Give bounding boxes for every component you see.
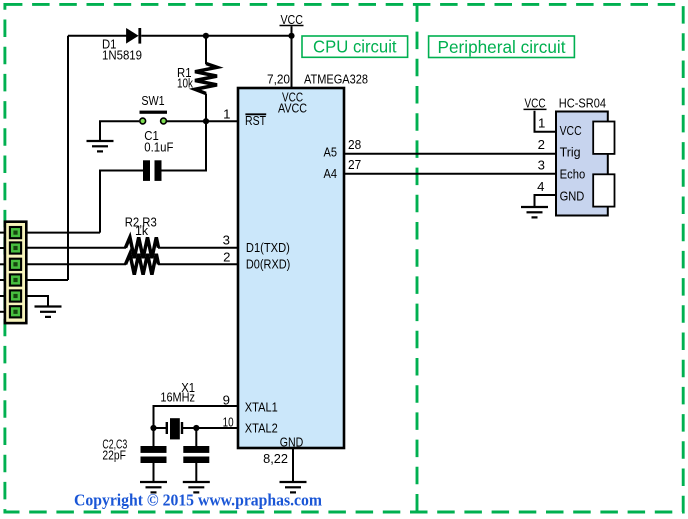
wire VCC stem [291, 26, 293, 88]
svg-text:A5: A5 [324, 145, 338, 160]
pin name RST (overline) [245, 113, 266, 128]
node junction RST/R1 [203, 118, 209, 124]
svg-text:27: 27 [348, 157, 361, 172]
wire left vertical [67, 36, 69, 280]
transducer lower [593, 174, 614, 206]
ground (SW1) [87, 141, 114, 151]
svg-text:4: 4 [537, 179, 544, 194]
wire XTAL1 [154, 406, 239, 446]
svg-text:22pF: 22pF [102, 448, 126, 463]
resistor R3 [126, 254, 159, 275]
svg-text:CPU circuit: CPU circuit [313, 37, 397, 57]
wire pin4 to ground [535, 195, 557, 207]
connector pin stubs left [0, 233, 5, 312]
wire pin5 to ground [26, 296, 48, 306]
connector pad 1 [10, 227, 21, 238]
wire pin4 row to left vertical [26, 279, 68, 281]
resistor R1 [195, 64, 217, 94]
ground (C2) [140, 482, 167, 492]
resistor R2 [126, 237, 159, 258]
Peripheral circuit label [429, 36, 575, 58]
power VCC (HC-SR04) [524, 96, 547, 111]
svg-text:Copyright © 2015 www.praphas.c: Copyright © 2015 www.praphas.com [74, 491, 322, 510]
svg-text:A4: A4 [324, 166, 338, 181]
svg-text:1: 1 [223, 107, 230, 122]
wire C1 left down to pin1 row [100, 171, 143, 233]
svg-text:ATMEGA328: ATMEGA328 [304, 72, 368, 87]
wire R1 top stub [205, 36, 207, 64]
ground (C3) [183, 482, 210, 492]
module U2 HC-SR04 body [556, 112, 608, 216]
wire TXD row right [158, 247, 238, 249]
svg-text:3: 3 [223, 233, 230, 248]
svg-text:GND: GND [280, 434, 304, 449]
ground (connector) [35, 307, 62, 317]
svg-text:28: 28 [348, 137, 361, 152]
switch SW1 [140, 93, 168, 124]
node junction crystal left [150, 425, 156, 431]
node junction crystal right [193, 425, 199, 431]
wire C1 right to RST node [162, 121, 207, 170]
wire VCC to pin1 [535, 111, 557, 132]
wire RXD row left [26, 263, 126, 265]
transducer upper [593, 122, 614, 154]
wire A4 to Echo [344, 173, 556, 175]
wire R1 bottom stub [205, 94, 207, 122]
wire top rail (right of diode) [141, 35, 291, 37]
wire crystal left lead [154, 427, 167, 429]
svg-text:1: 1 [538, 116, 545, 131]
svg-text:D1(TXD): D1(TXD) [246, 240, 290, 255]
connector pad 5 [10, 290, 21, 301]
svg-text:10k: 10k [177, 75, 193, 90]
svg-text:XTAL2: XTAL2 [245, 421, 278, 436]
connector pad 4 [10, 274, 21, 285]
svg-text:2: 2 [538, 137, 545, 152]
IC U1 ATMEGA328 body [238, 88, 344, 448]
svg-text:3: 3 [538, 158, 545, 173]
svg-text:8,22: 8,22 [263, 451, 288, 466]
wire RXD row right [158, 263, 238, 265]
node junction at VCC stem [288, 33, 294, 39]
wire C3 to ground [195, 463, 197, 483]
svg-text:GND: GND [560, 189, 585, 204]
wire MCU GND stem [292, 448, 294, 482]
wire TXD row left [26, 247, 126, 249]
svg-text:AVCC: AVCC [278, 100, 307, 115]
capacitor C1 [143, 128, 173, 181]
svg-text:16MHz: 16MHz [160, 390, 195, 405]
svg-text:D0(RXD): D0(RXD) [246, 256, 290, 271]
ground (HC-SR04) [521, 207, 548, 217]
svg-text:VCC: VCC [560, 123, 582, 138]
svg-text:Echo: Echo [560, 167, 586, 182]
wire XTAL2 [196, 428, 238, 446]
svg-text:2: 2 [223, 250, 230, 265]
capacitor C2 [141, 446, 167, 463]
power VCC (top) [280, 12, 304, 27]
connector J1 [5, 222, 26, 323]
svg-text:SW1: SW1 [141, 93, 164, 108]
wire A5 to Trig [344, 153, 556, 155]
crystal X1 [167, 418, 182, 439]
svg-text:HC-SR04: HC-SR04 [559, 96, 606, 111]
wire SW1 left to ground [100, 121, 139, 140]
wire top rail (left of diode) [68, 35, 127, 37]
connector pad 2 [10, 242, 21, 253]
svg-text:Peripheral circuit: Peripheral circuit [438, 37, 566, 57]
wire pin1 row [26, 232, 100, 234]
svg-text:1k: 1k [135, 223, 148, 238]
wire C2 to ground [153, 463, 155, 483]
connector pad 6 [10, 306, 21, 317]
svg-text:7,20: 7,20 [267, 72, 290, 87]
node junction at R1 top [203, 33, 209, 39]
svg-text:VCC: VCC [525, 96, 546, 111]
svg-text:VCC: VCC [280, 12, 303, 27]
svg-text:Trig: Trig [560, 145, 581, 160]
diode D1 [126, 28, 141, 44]
divider dashed line [416, 4, 419, 512]
capacitor C3 [183, 446, 209, 463]
svg-text:XTAL1: XTAL1 [245, 400, 278, 415]
svg-text:1N5819: 1N5819 [102, 48, 142, 63]
ground (MCU) [280, 482, 307, 492]
wire crystal right lead [182, 427, 196, 429]
connector pad 3 [10, 259, 21, 270]
wire RST row [167, 120, 238, 122]
CPU circuit label [302, 36, 408, 57]
svg-text:0.1uF: 0.1uF [144, 140, 173, 155]
